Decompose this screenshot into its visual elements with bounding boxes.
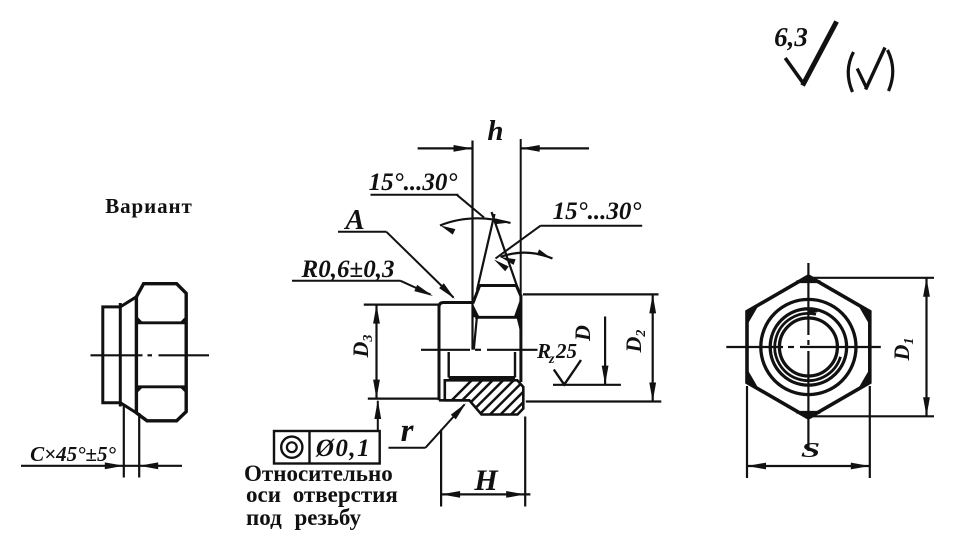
svg-text:D: D <box>570 325 595 342</box>
tolerance frame concentricity 0,1 <box>274 431 380 464</box>
svg-text:z: z <box>548 352 555 367</box>
roughness triangle Rz25 <box>554 370 575 385</box>
svg-text:Вариант: Вариант <box>105 194 193 218</box>
svg-text:25: 25 <box>555 339 577 363</box>
dimension H line with arrows <box>441 493 530 495</box>
nut right face and h extension line <box>520 139 522 295</box>
hex mid edge line <box>475 316 521 319</box>
svg-text:C×45°±5°: C×45°±5° <box>30 442 116 466</box>
chamfer construction line right <box>492 212 520 294</box>
dimension D3 line with arrows <box>375 305 377 399</box>
threaded bore wall <box>449 376 515 379</box>
dimension S extension lines <box>746 386 748 478</box>
svg-text:Ø0,1: Ø0,1 <box>315 435 371 462</box>
chamfer arc wedge left <box>473 304 480 318</box>
svg-text:r: r <box>401 413 415 449</box>
dimension D half-arrow line <box>604 317 606 385</box>
dimension D3 extension line top <box>364 304 440 306</box>
hex view horizontal centerline <box>726 346 783 348</box>
bore chamfer edge right <box>514 352 516 378</box>
crown left edge and h extension line <box>471 141 473 350</box>
svg-text:под резьбу: под резьбу <box>246 505 362 530</box>
dimension D3 extension line bottom <box>368 398 440 400</box>
variant hex lower face edge <box>137 385 185 388</box>
dimension h line with arrows <box>418 147 473 149</box>
dimension D1 extension line bottom <box>812 415 934 417</box>
chamfer circle <box>761 299 856 394</box>
hexagon corner chamfer flats <box>796 280 820 283</box>
variant collar right edge <box>119 303 122 407</box>
svg-text:S: S <box>801 439 820 462</box>
thread major diameter arc (3/4) <box>775 313 841 380</box>
dimension C x 45deg: extension lines <box>123 404 125 478</box>
hexagon corner fill wedges <box>796 276 820 282</box>
dimension D2 extension line bottom <box>526 400 662 402</box>
thread hole circle <box>779 318 837 376</box>
dimension H extension lines <box>440 430 442 507</box>
svg-text:H: H <box>473 464 499 497</box>
variant collar-to-hex bottom chamfer <box>120 403 136 413</box>
angle arc left with arrows <box>440 218 511 225</box>
counterbore circle <box>770 309 846 385</box>
dimension S line with arrows <box>747 465 870 467</box>
nut bottom face front edge <box>439 399 469 402</box>
hex face taper below mid edge left <box>474 318 477 350</box>
angle arc right with arrows <box>501 253 553 259</box>
variant chamfer arc wedges <box>137 316 143 324</box>
chamfer construction line left <box>477 214 495 290</box>
nut left bearing face <box>444 301 473 304</box>
hex view vertical centerline <box>807 263 809 335</box>
svg-text:h: h <box>487 115 503 147</box>
svg-text:15°...30°: 15°...30° <box>369 169 458 196</box>
svg-text:6,3: 6,3 <box>774 22 808 52</box>
svg-text:15°...30°: 15°...30° <box>553 198 642 225</box>
dimension D1 line with arrows <box>925 278 927 417</box>
hexagon outline of nut <box>747 276 870 418</box>
dimension D2 line with arrows <box>652 294 654 401</box>
dimension D1 extension line top <box>812 277 934 279</box>
svg-text:оси отверстия: оси отверстия <box>246 482 398 507</box>
variant hex body outline <box>136 284 186 421</box>
surface finish mark 6,3 with check symbol <box>774 22 836 86</box>
dimension C x 45deg: dimension line with arrows <box>21 465 182 467</box>
bore surface extension line <box>553 384 621 386</box>
dimension D2 extension line top <box>523 293 659 295</box>
alternate finish mark (check) in parentheses <box>848 48 893 93</box>
bore chamfer edge left <box>448 352 450 378</box>
svg-text:R0,6±0,3: R0,6±0,3 <box>301 256 395 283</box>
variant collar-to-hex top chamfer <box>120 297 136 307</box>
variant centerline <box>91 354 143 356</box>
main view centerline (nut axis) <box>421 349 470 351</box>
tolerance frame leader arrow to bearing face datum <box>377 401 379 431</box>
crown profile with chamfer <box>473 286 521 304</box>
chamfer arc wedge right <box>514 297 521 317</box>
variant nut collar outline <box>103 307 121 403</box>
variant hex upper face edge <box>137 321 185 324</box>
hex face taper below mid edge right (wedge) <box>517 318 522 337</box>
